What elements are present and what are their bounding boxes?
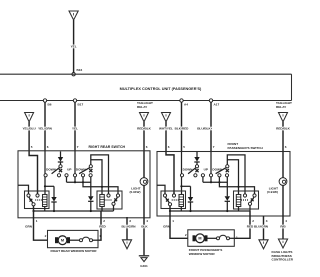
switch pivot 2 — [226, 165, 229, 168]
svg-text:RELAY: RELAY — [276, 105, 287, 109]
svg-text:BLK: BLK — [141, 224, 148, 228]
switch arm 2 — [216, 168, 227, 174]
svg-text:5: 5 — [183, 145, 185, 149]
bulb L1 — [140, 178, 148, 186]
svg-text:5: 5 — [31, 145, 33, 149]
wire pin1 GRN to motor — [170, 206, 188, 239]
svg-text:BLU/GRN: BLU/GRN — [121, 224, 136, 228]
svg-text:M: M — [61, 239, 64, 243]
diode D3 wire — [90, 177, 92, 196]
switch pivot 2 — [89, 165, 92, 168]
junction dots — [210, 181, 212, 183]
bus wire — [203, 181, 227, 183]
relay coil feed left — [157, 185, 166, 194]
contact circles — [180, 174, 183, 177]
svg-text:RED/BLK: RED/BLK — [276, 127, 291, 131]
wire pin3 BLU/GRN — [126, 217, 128, 240]
crossover to coil 2 — [227, 160, 238, 195]
pivot 2 feed crossover — [227, 155, 245, 194]
node B6 — [43, 99, 46, 102]
diode D4 — [196, 152, 198, 158]
svg-text:UP: UP — [67, 167, 71, 171]
switch arm 2 — [79, 168, 90, 174]
crossover to coil 2 — [91, 160, 102, 195]
connector triangle taillight relay left — [140, 113, 149, 122]
svg-text:A4: A4 — [184, 102, 188, 106]
coil K4 — [236, 195, 241, 207]
wire WHT/YEL — [165, 122, 167, 152]
wire to breaker — [70, 239, 80, 241]
wire pin2 RED to motor — [234, 211, 250, 238]
wire pin3 BLU/GRN — [263, 216, 265, 240]
bottom bus — [170, 210, 250, 212]
svg-text:(0.91W): (0.91W) — [129, 190, 140, 194]
pivot 2 feed crossover — [91, 155, 109, 194]
coil K2 — [100, 195, 105, 207]
node A4 — [180, 99, 183, 102]
svg-text:YEL/BLU: YEL/BLU — [22, 127, 36, 131]
connector triangle top (to fuse) — [69, 11, 78, 20]
wire pin6 down to coil — [44, 152, 46, 195]
svg-text:(0.91W): (0.91W) — [267, 190, 278, 194]
node A17 — [209, 99, 212, 102]
illumination light bulb wire left — [143, 152, 145, 178]
wire YEL/GRN from B6 — [44, 102, 46, 151]
motor M1 — [55, 237, 58, 243]
front passenger's window motor M2 box — [188, 230, 235, 247]
connector triangle dash lights — [278, 239, 287, 248]
wire pin5 down to coil — [181, 152, 183, 195]
wire RED/BLK left — [143, 122, 145, 152]
coil K1 bottom wire — [44, 207, 46, 212]
wire RED/BLK right — [282, 122, 284, 152]
svg-text:BLU/GRN: BLU/GRN — [254, 224, 269, 228]
connector triangle WHT/YEL — [162, 113, 171, 122]
svg-text:GRN: GRN — [163, 224, 171, 228]
svg-text:1: 1 — [99, 234, 101, 238]
svg-text:RED: RED — [247, 224, 254, 228]
wire pin1 GRN to motor — [34, 206, 48, 240]
connector triangle taillight relay right — [279, 113, 288, 122]
diode D6 wire — [226, 177, 228, 196]
diode D5 — [190, 186, 192, 197]
contact stub — [66, 177, 68, 182]
svg-text:6: 6 — [285, 145, 287, 149]
svg-text:R/B: R/B — [280, 224, 286, 228]
svg-text:B16: B16 — [77, 68, 83, 72]
wire BLK/RED from A4 — [181, 102, 183, 151]
wire pin5 jog — [29, 152, 37, 194]
junction dots — [74, 181, 76, 183]
down relay K1 box — [25, 191, 50, 209]
bus wire 2 — [180, 185, 190, 187]
svg-text:WINDOW MOTOR: WINDOW MOTOR — [189, 252, 216, 256]
front passenger's switch S2 box — [157, 152, 290, 217]
svg-text:2: 2 — [185, 233, 187, 237]
relay K4 out — [249, 205, 251, 211]
wire pin6 jog — [166, 152, 174, 194]
svg-text:RELAY: RELAY — [137, 105, 148, 109]
wire YEL from connector to MICU — [73, 20, 75, 73]
svg-text:YEL: YEL — [71, 45, 77, 49]
svg-text:WHT/YEL: WHT/YEL — [159, 127, 173, 131]
svg-text:B17: B17 — [78, 102, 84, 106]
svg-text:GRN: GRN — [25, 224, 33, 228]
wire BLU/BLK from A17 — [210, 102, 212, 151]
coil K3 — [179, 195, 184, 207]
switch arm — [188, 168, 196, 174]
contact circles — [44, 174, 47, 177]
bulb L2 — [279, 178, 287, 186]
diode D1 — [60, 152, 62, 158]
svg-text:1: 1 — [172, 219, 174, 223]
svg-text:RED/BLK: RED/BLK — [137, 127, 152, 131]
diode D2 — [53, 186, 55, 197]
svg-text:CONTROLLER: CONTROLLER — [272, 258, 294, 262]
switch pivot contact — [59, 165, 62, 168]
coil K3 bottom wire — [180, 207, 182, 212]
wire pin2 RED to motor — [98, 211, 101, 240]
svg-text:2: 2 — [103, 219, 105, 223]
wire pin4 BLK to ground — [143, 217, 145, 255]
svg-text:RIGHT REAR SWITCH: RIGHT REAR SWITCH — [89, 145, 126, 149]
relay K2 out — [113, 205, 115, 211]
svg-text:M: M — [198, 237, 201, 241]
svg-text:4: 4 — [285, 219, 287, 223]
svg-text:DOWN: DOWN — [183, 167, 194, 171]
svg-text:3: 3 — [266, 219, 268, 223]
illumination light bulb wire right — [282, 152, 284, 178]
right rear switch S1 box — [18, 151, 150, 218]
wire pin7 down to bus — [210, 152, 212, 183]
motor M2 — [193, 235, 196, 241]
wire YEL from B17 — [74, 102, 76, 151]
svg-text:2: 2 — [45, 234, 47, 238]
svg-text:RIGHT REAR WINDOW MOTOR: RIGHT REAR WINDOW MOTOR — [50, 249, 97, 253]
svg-text:4: 4 — [146, 219, 148, 223]
svg-text:PASSENGER’S SWITCH: PASSENGER’S SWITCH — [228, 146, 264, 150]
contact stub — [202, 177, 204, 182]
bus wire — [67, 181, 91, 183]
svg-text:7: 7 — [213, 145, 215, 149]
wire to breaker — [208, 237, 217, 239]
svg-text:YEL: YEL — [72, 127, 78, 131]
multiplex control unit U1 (passenger's) top edge — [0, 73, 292, 75]
connector triangle BLU/GRN right — [259, 240, 268, 249]
svg-text:A17: A17 — [214, 102, 220, 106]
svg-text:UP: UP — [204, 167, 208, 171]
contact 3 route — [83, 177, 118, 194]
down relay K3 box — [161, 191, 186, 209]
up relay K2 box — [97, 191, 122, 209]
svg-text:1: 1 — [236, 235, 238, 239]
svg-text:MULTIPLEX CONTROL UNIT (PASSEN: MULTIPLEX CONTROL UNIT (PASSENGER’S) — [120, 87, 202, 91]
svg-text:6: 6 — [47, 145, 49, 149]
relay coil feed left — [18, 185, 29, 194]
svg-text:3: 3 — [129, 219, 131, 223]
svg-text:6: 6 — [168, 145, 170, 149]
multiplex control unit right edge — [291, 74, 293, 100]
circuit breaker left — [80, 239, 83, 242]
multiplex control unit bottom edge — [0, 100, 292, 102]
node B16 — [72, 73, 75, 76]
contact 3 route — [219, 177, 254, 194]
wire YEL/BLU — [28, 122, 30, 152]
svg-text:7: 7 — [77, 145, 79, 149]
right rear window motor M1 box — [48, 230, 99, 247]
switch arm — [52, 168, 60, 174]
svg-text:1: 1 — [36, 219, 38, 223]
wire pin4 R/B — [282, 216, 284, 239]
switch pivot contact — [195, 165, 198, 168]
svg-text:G401: G401 — [140, 264, 148, 268]
coil K1 — [43, 195, 48, 207]
svg-text:B6: B6 — [48, 102, 52, 106]
svg-text:RED: RED — [99, 224, 106, 228]
svg-text:YEL/GRN: YEL/GRN — [38, 127, 53, 131]
bus wire 2 — [44, 185, 54, 187]
bottom bus — [34, 210, 114, 212]
wire pin7 down to bus — [74, 152, 76, 183]
svg-text:6: 6 — [146, 145, 148, 149]
ground G401 — [139, 255, 149, 257]
circuit breaker right — [217, 237, 220, 240]
connector triangle BLU/GRN left — [122, 240, 131, 249]
connector triangle YEL/BLU — [25, 113, 34, 122]
svg-text:BLK/RED: BLK/RED — [175, 127, 190, 131]
svg-text:2: 2 — [252, 219, 254, 223]
svg-text:BLU/BLK: BLU/BLK — [197, 127, 211, 131]
svg-text:DOWN: DOWN — [46, 167, 57, 171]
node B17 — [73, 99, 76, 102]
up relay K4 box — [234, 191, 259, 209]
